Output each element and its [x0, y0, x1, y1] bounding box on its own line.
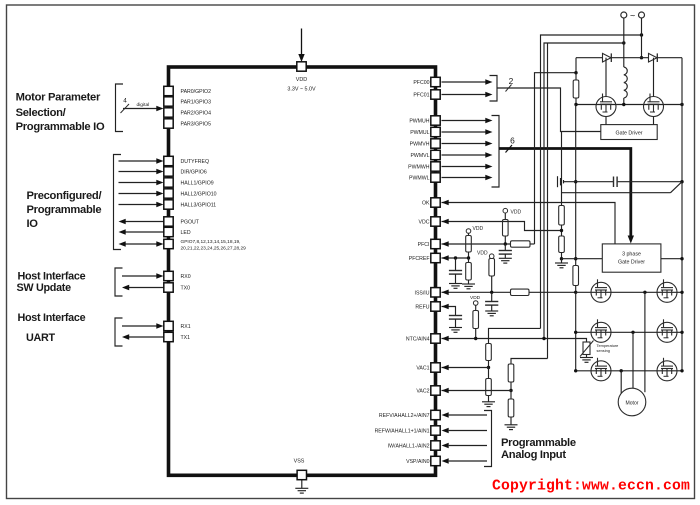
pin TX0 [164, 283, 173, 292]
svg-text:VDD: VDD [473, 226, 484, 232]
svg-text:Host Interface: Host Interface [18, 312, 86, 324]
wire rail to VAC2 divider [511, 359, 548, 365]
transistor PFC Q1 [605, 58, 607, 97]
input arrow to HALL2/GPIO10 [119, 193, 157, 195]
node driver-left junction [560, 257, 563, 260]
wire VDC sense [442, 222, 562, 231]
svg-text:PAR2/GPIO4: PAR2/GPIO4 [181, 111, 212, 117]
bracket SW-update group [115, 268, 123, 296]
pin TX1 [164, 332, 173, 341]
pin ISS/IU [431, 288, 440, 297]
pin HALL3/GPIO11 [164, 200, 173, 209]
resistor series on ISS/IU [511, 289, 530, 295]
bracket motor-parameter group [116, 84, 124, 132]
svg-text:PFCREF: PFCREF [409, 256, 430, 262]
wire motor phase U [644, 292, 646, 392]
svg-text:2: 2 [509, 76, 514, 86]
svg-text:UART: UART [26, 332, 55, 344]
wire PFCREF [442, 257, 469, 259]
output wire PWMWL [442, 177, 486, 179]
pin DUTYFREQ [164, 156, 173, 165]
wire to 3-phase driver left [562, 258, 603, 260]
input arrow to HALL3/GPIO11 [119, 204, 157, 206]
svg-text:3 phase: 3 phase [622, 252, 641, 258]
svg-text:Motor: Motor [625, 400, 638, 406]
bracket analog input group [484, 411, 492, 467]
node row2 left [574, 331, 577, 334]
pin PWMUL [431, 127, 440, 136]
svg-text:VAC1: VAC1 [416, 366, 429, 372]
resistor VAC1 lower [488, 368, 490, 379]
wire PFC return [575, 105, 577, 266]
resistor divider R1 [559, 206, 565, 226]
3-phase gate driver box [602, 244, 661, 272]
svg-text:RX0: RX0 [181, 274, 191, 280]
node row1 right [680, 291, 683, 294]
svg-text:PWMUL: PWMUL [410, 130, 429, 136]
rail AC1 to VAC1 network [541, 35, 642, 328]
svg-text:VDC: VDC [419, 220, 430, 226]
svg-text:REFW/AHALL1+1/AIN1: REFW/AHALL1+1/AIN1 [375, 429, 430, 435]
svg-text:VSS: VSS [294, 459, 305, 465]
node shunt bottom [574, 291, 577, 294]
node AC right / diode row [640, 56, 643, 59]
output arrow from LED [126, 231, 164, 233]
capacitor at PFCREF [455, 258, 457, 270]
svg-text:Preconfigured/: Preconfigured/ [27, 190, 102, 202]
wire PFCI to rail [530, 243, 535, 245]
bus-6 thick wire to 3-phase driver [499, 149, 631, 236]
svg-text:HALL3/GPIO11: HALL3/GPIO11 [181, 203, 217, 209]
node VAC2 junction [509, 389, 512, 392]
pin VAC2 [431, 386, 440, 395]
svg-text:digital: digital [137, 102, 150, 108]
PFC gate driver box [601, 125, 657, 140]
pin PGOUT [164, 217, 173, 226]
capacitor at REFU [449, 315, 462, 317]
svg-text:IO: IO [27, 218, 39, 230]
svg-text:RX1: RX1 [181, 324, 191, 330]
pin PWMVL [431, 150, 440, 159]
svg-text:Programmable IO: Programmable IO [16, 121, 105, 133]
svg-text:sensing: sensing [597, 348, 610, 353]
svg-text:VAC2: VAC2 [416, 389, 429, 395]
input wire REFW/AHALL1+1/AIN1 [449, 430, 487, 432]
pin RX0 [164, 271, 173, 280]
output wire PWMUH [442, 120, 486, 122]
svg-text:Analog Input: Analog Input [501, 449, 566, 461]
svg-text:VDD: VDD [477, 251, 488, 257]
wire ISS/IU [442, 291, 511, 293]
pin PAR2/GPIO4 [164, 108, 173, 117]
svg-text:Gate Driver: Gate Driver [618, 260, 645, 266]
svg-text:PAR0/GPIO2: PAR0/GPIO2 [181, 89, 212, 95]
rail AC2-b to VAC2 network [547, 43, 549, 359]
pin PAR0/GPIO2 [164, 86, 173, 95]
pin HALL2/GPIO10 [164, 189, 173, 198]
svg-text:PWMUH: PWMUH [409, 119, 429, 125]
resistor VAC2 lower [510, 391, 512, 400]
wire diode row to DC node [575, 58, 577, 73]
svg-text:LED: LED [181, 230, 191, 236]
node motor phase W [620, 369, 623, 372]
svg-text:PWMWH: PWMWH [408, 165, 430, 171]
transistor inverter Q4 [657, 279, 677, 302]
output arrow from TX1 [129, 336, 164, 338]
svg-text:REFV/AHALL2+/AIN7: REFV/AHALL2+/AIN7 [379, 413, 430, 419]
node motor phase V [631, 331, 634, 334]
pin REFV/AHALL2+/AIN7 [431, 410, 440, 419]
node PFCREF-a [454, 256, 457, 259]
resistor divider R2 [559, 236, 565, 253]
pin LED [164, 227, 173, 236]
wire AC left terminal [623, 18, 625, 67]
node shunt top [574, 180, 577, 183]
svg-text:Motor Parameter: Motor Parameter [16, 92, 101, 104]
output wire PWMWH [442, 166, 486, 168]
node motor phase U [643, 291, 646, 294]
capacitor at PFCI node [504, 244, 506, 250]
output wire PWMUL [442, 131, 486, 133]
svg-text:~: ~ [630, 11, 635, 21]
pin GPIO7..29 [164, 239, 173, 248]
resistor shunt R-iss [573, 266, 579, 286]
svg-text:TX1: TX1 [181, 335, 191, 341]
input wire VSP/AIN0 [449, 460, 487, 462]
resistor PFC sense upper [575, 73, 577, 80]
svg-text:GPIO7,8,12,13,14,15,18,19,: GPIO7,8,12,13,14,15,18,19, [181, 239, 241, 245]
svg-text:TX0: TX0 [181, 286, 191, 292]
svg-text:DIR/GPIO6: DIR/GPIO6 [181, 170, 207, 176]
pin HALL1/GPIO9 [164, 178, 173, 187]
pin RX1 [164, 321, 173, 330]
node PFC row b [622, 103, 625, 106]
bus-6 slash [506, 145, 513, 153]
input wire REFV/AHALL2+/AIN7 [449, 414, 487, 416]
node PFCREF-b [467, 256, 470, 259]
wire motor phase V [632, 332, 634, 388]
transistor inverter Q8 [657, 358, 677, 381]
wire ISS/IU to shunt node [529, 291, 576, 293]
svg-text:OK: OK [422, 201, 430, 207]
svg-text:NTC/AIN4: NTC/AIN4 [406, 337, 430, 343]
motor M1 [618, 388, 646, 416]
bus-2 wire to gate driver [497, 88, 601, 132]
wire rail to VAC1 divider [489, 328, 541, 343]
node row3 left [574, 369, 577, 372]
node PFC row c [680, 103, 683, 106]
ground divider [561, 259, 563, 263]
pin PFC01 [431, 90, 440, 99]
pin PWMWH [431, 162, 440, 171]
svg-text:PAR1/GPIO3: PAR1/GPIO3 [181, 100, 212, 106]
output wire PWMVH [442, 143, 486, 145]
pin PWMVH [431, 139, 440, 148]
wire PFC switch row [576, 104, 682, 106]
svg-text:Copyright:www.eccn.com: Copyright:www.eccn.com [492, 479, 690, 495]
capacitor at ISS node [491, 292, 493, 301]
svg-text:HALL2/GPIO10: HALL2/GPIO10 [181, 192, 217, 198]
resistor VAC1 upper [486, 344, 492, 361]
transistor inverter Q6 [657, 319, 677, 342]
pin VAC1 [431, 363, 440, 372]
pull-up VDD for PFCI [503, 208, 508, 213]
diode D1 [603, 53, 612, 62]
inductor L1 [624, 67, 627, 98]
node shunt mid [574, 257, 577, 260]
wire inverter row2 [576, 331, 682, 333]
AC plug terminals [621, 12, 627, 18]
wire inverter row3 [576, 370, 682, 372]
node PFC row a [574, 103, 577, 106]
transistor inverter Q5 [591, 319, 611, 342]
svg-text:REFU: REFU [415, 305, 429, 311]
svg-text:PGOUT: PGOUT [181, 220, 200, 226]
rail DC-bus to PFCI [535, 73, 577, 244]
pull-up VDD for PFCREF [466, 229, 471, 234]
svg-text:PFC00: PFC00 [413, 80, 429, 86]
wire PFCI [442, 243, 511, 245]
pin PFCREF [431, 253, 440, 262]
node rail AC2 top [622, 41, 625, 44]
svg-text:4: 4 [123, 98, 127, 105]
VDD supply arrow [301, 29, 303, 56]
pin OK [431, 198, 440, 207]
input wire IW/AHALL1-/AIN2 [449, 445, 487, 447]
svg-text:ISS/IU: ISS/IU [415, 290, 430, 296]
svg-text:6: 6 [510, 136, 515, 146]
wire NTC/AIN4 to thermistor [442, 339, 587, 343]
node rail on NTC line [542, 337, 545, 340]
wire AC right terminal [641, 18, 643, 58]
MCU body U1 [169, 67, 436, 475]
node VDC tap [560, 229, 563, 232]
svg-text:Selection/: Selection/ [16, 107, 66, 119]
input arrow to DIR/GPIO6 [119, 171, 157, 173]
input arrow to HALL1/GPIO9 [119, 182, 157, 184]
pin PWMUH [431, 116, 440, 125]
bus 4 digital arrow [123, 108, 157, 110]
input arrow to RX1 [122, 325, 157, 327]
svg-text:PWMVL: PWMVL [410, 153, 429, 159]
resistor VAC2 upper [508, 364, 514, 382]
wire divider top [561, 132, 563, 206]
pin PWMWL [431, 173, 440, 182]
bracket PFC bus [490, 76, 498, 102]
pin PAR3/GPIO5 [164, 119, 173, 128]
node driver-right [680, 257, 683, 260]
transistor inverter Q3 [591, 279, 611, 302]
ground at VSS [301, 480, 303, 489]
transistor inverter Q7 [591, 358, 611, 381]
pin NTC/AIN4 [431, 334, 440, 343]
svg-text:VDD: VDD [470, 295, 481, 301]
wire 3-phase driver right [661, 258, 682, 260]
ground bulk-cap line [557, 176, 559, 187]
wire VAC2 [442, 390, 512, 392]
capacitor DC bus [566, 181, 613, 183]
wire OK from 3-phase gate driver [442, 203, 616, 244]
svg-text:PFCI: PFCI [418, 242, 430, 248]
svg-text:PAR3/GPIO5: PAR3/GPIO5 [181, 122, 212, 128]
pin VDD [297, 62, 306, 71]
node row2 right [680, 331, 683, 334]
bracket PWM bus [492, 116, 500, 188]
svg-text:20,21,22,23,24,25,26,27,28,29: 20,21,22,23,24,25,26,27,28,29 [181, 246, 247, 252]
pin PFC00 [431, 77, 440, 86]
output arrow from PGOUT [126, 221, 164, 223]
pin IW/AHALL1-/AIN2 [431, 441, 440, 450]
svg-text:PWMWL: PWMWL [409, 176, 430, 182]
pin REFU [431, 302, 440, 311]
input arrow to RX0 [122, 275, 157, 277]
wire inverter left chain [575, 292, 577, 371]
pull-up VDD for ISS/IU [489, 254, 494, 259]
resistor PFCREF to ground [468, 258, 470, 263]
node row3 right [680, 369, 683, 372]
node ISS junction [490, 291, 493, 294]
svg-text:SW Update: SW Update [17, 282, 72, 294]
wire REFU [442, 307, 456, 316]
thermistor NTC [583, 342, 590, 355]
svg-text:Host Interface: Host Interface [18, 271, 86, 283]
svg-text:Gate Driver: Gate Driver [615, 131, 642, 137]
svg-text:HALL1/GPIO9: HALL1/GPIO9 [181, 181, 214, 187]
svg-text:VSP/AIN0: VSP/AIN0 [406, 459, 429, 465]
svg-text:IW/AHALL1-/AIN2: IW/AHALL1-/AIN2 [388, 444, 430, 450]
svg-text:3.3V ~ 5.0V: 3.3V ~ 5.0V [287, 87, 316, 93]
pin VDC [431, 217, 440, 226]
input arrow to DUTYFREQ [119, 160, 157, 162]
svg-text:PFC01: PFC01 [413, 93, 429, 99]
node rail AC1 top [640, 33, 643, 36]
svg-text:VDD: VDD [511, 209, 522, 215]
bracket preconfigured group [114, 155, 122, 250]
svg-text:Programmable: Programmable [501, 437, 576, 449]
wire diode row [576, 57, 682, 59]
resistor series on PFCI [511, 241, 531, 247]
pin VSP/AIN0 [431, 456, 440, 465]
svg-text:VDD: VDD [296, 77, 307, 83]
output wire PFC01 [442, 94, 486, 96]
node PFCI junction [504, 242, 507, 245]
svg-text:DUTYFREQ: DUTYFREQ [181, 159, 210, 165]
node DC bus [574, 71, 577, 74]
wire inverter row1 [576, 291, 682, 293]
output wire PWMVL [442, 154, 486, 156]
output arrow from TX0 [129, 287, 164, 289]
output wire PFC00 [442, 81, 486, 83]
wire motor phase W [620, 371, 622, 394]
bidirectional arrow GPIO bus [126, 243, 157, 245]
node VAC1 junction [487, 366, 490, 369]
node NTC junction [474, 337, 477, 340]
wire VAC1 [442, 367, 489, 369]
pin VSS [297, 470, 306, 479]
pin PAR1/GPIO3 [164, 97, 173, 106]
pin REFW/AHALL1+1/AIN1 [431, 426, 440, 435]
wire DC+ right rail [681, 58, 683, 371]
svg-text:PWMVH: PWMVH [410, 142, 430, 148]
pin PFCI [431, 239, 440, 248]
wire DC feedback [562, 192, 671, 194]
transistor PFC Q2 [653, 58, 655, 97]
node DC cap right [680, 180, 683, 183]
diode D2 [649, 53, 658, 62]
pin DIR/GPIO6 [164, 167, 173, 176]
rail AC2-a [544, 43, 624, 339]
svg-text:Programmable: Programmable [27, 204, 102, 216]
bracket UART group [115, 318, 123, 346]
